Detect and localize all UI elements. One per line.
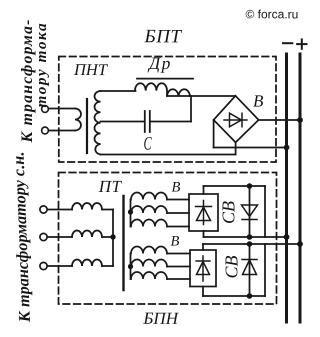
svg-text:К трансформатору с.н.: К трансформатору с.н. (8, 151, 34, 323)
svg-text:В: В (171, 180, 180, 196)
svg-text:СВ: СВ (222, 255, 242, 278)
svg-text:В: В (253, 92, 264, 111)
svg-text:ПТ: ПТ (98, 177, 123, 196)
svg-text:БПТ: БПТ (143, 26, 182, 47)
svg-text:СВ: СВ (219, 201, 239, 224)
svg-text:тору тока: тору тока (33, 22, 50, 108)
svg-text:Др: Др (147, 53, 172, 73)
svg-text:© forca.ru: © forca.ru (245, 7, 298, 21)
svg-text:С: С (143, 134, 151, 155)
svg-text:БПН: БПН (142, 309, 179, 328)
svg-text:В: В (170, 234, 179, 250)
svg-text:ПНТ: ПНТ (73, 60, 109, 79)
